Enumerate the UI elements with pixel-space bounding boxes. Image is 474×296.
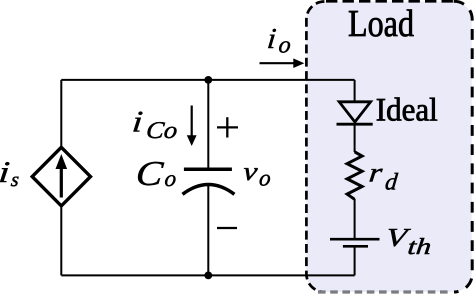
svg-text:o: o: [163, 165, 177, 191]
svg-text:Ideal: Ideal: [376, 93, 438, 129]
svg-text:o: o: [258, 165, 272, 191]
svg-text:Load: Load: [348, 3, 414, 45]
svg-text:i: i: [0, 155, 11, 189]
svg-text:Co: Co: [145, 118, 179, 144]
svg-text:v: v: [242, 157, 260, 186]
svg-text:C: C: [134, 154, 165, 193]
svg-text:th: th: [406, 233, 432, 259]
svg-text:i: i: [131, 105, 145, 139]
svg-text:i: i: [266, 23, 278, 55]
svg-text:o: o: [277, 33, 292, 59]
svg-text:s: s: [10, 169, 20, 191]
